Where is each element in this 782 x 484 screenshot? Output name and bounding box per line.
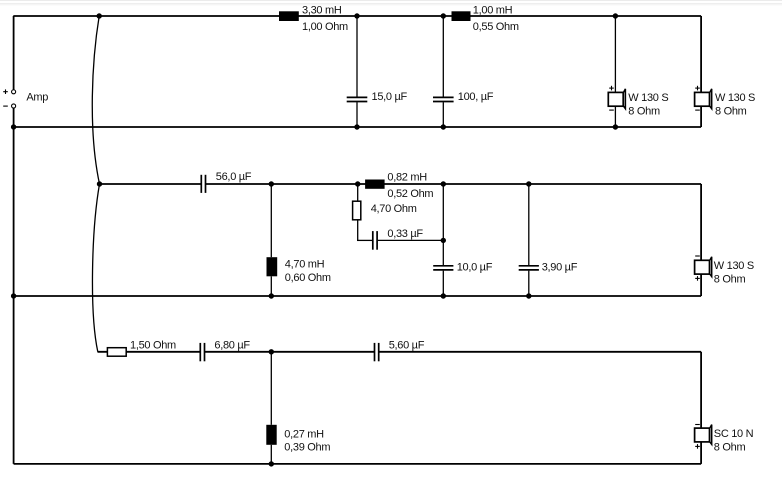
svg-text:0,60 Ohm: 0,60 Ohm — [285, 272, 331, 284]
junction node midrange rail / 4.70mH — [269, 181, 274, 186]
svg-text:0,33 µF: 0,33 µF — [387, 228, 423, 240]
svg-text:8 Ohm: 8 Ohm — [628, 106, 660, 118]
wire: midrange top rail left part — [100, 183, 202, 185]
wire: section 3 ground rail — [14, 463, 702, 465]
capacitor 6,80 uF (series, section 3) — [200, 343, 204, 361]
junction node ground rail 1 / left bus — [11, 124, 16, 129]
junction node top bus / woofer 1 — [613, 13, 618, 18]
svg-text:SC 10 N: SC 10 N — [714, 428, 754, 440]
wire: curved feed from midrange node to tweeter section — [92, 184, 99, 352]
junction node midrange rail / curve — [97, 181, 102, 186]
junction node ground rail 2 / 10uF — [441, 293, 446, 298]
junction node ground rail 2 / 4.70mH — [269, 293, 274, 298]
speaker W 130 S (midrange) — [695, 257, 712, 277]
svg-text:100, µF: 100, µF — [458, 91, 494, 103]
inductor 4,70 mH (shunt, section 2) — [267, 257, 278, 276]
wire: section 1 ground rail — [14, 126, 702, 128]
wire: section 1 right edge upper — [700, 16, 702, 92]
junction node ground rail 2 / left bus — [11, 293, 16, 298]
junction node ground rail 2 / 3.90uF — [526, 293, 531, 298]
minus sign amp — [3, 105, 8, 107]
svg-text:10,0 µF: 10,0 µF — [457, 261, 493, 273]
svg-text:3,30 mH: 3,30 mH — [302, 4, 342, 16]
wire: section 3 right edge lower — [700, 442, 702, 464]
junction node top bus / curve — [97, 13, 102, 18]
wire: 100uF cap upper stub — [442, 16, 444, 97]
svg-text:1,00 mH: 1,00 mH — [473, 4, 513, 16]
wire: tweeter top rail seg3 — [379, 351, 701, 353]
speaker W 130 S number 1 (woofer) — [608, 89, 625, 109]
junction node midrange rail / 3.90uF — [526, 181, 531, 186]
junction node ground rail 1 / 15uF — [354, 124, 359, 129]
junction node top bus / 15uF — [354, 13, 359, 18]
wire: RC branch horizontal right part — [378, 239, 444, 241]
speaker W 130 S number 2 (woofer) — [695, 89, 712, 109]
inductor 3,30 mH (series, section 1) — [279, 11, 299, 21]
top window edge band — [0, 0, 782, 6]
wire: 15uF cap upper stub — [356, 16, 358, 97]
wire: left bus upper (Amp + lead) — [13, 16, 15, 90]
svg-text:56,0 µF: 56,0 µF — [216, 171, 252, 183]
capacitor 100, uF (shunt, section 1) — [433, 97, 454, 101]
wire: 0.27mH shunt upper stub — [270, 352, 272, 425]
capacitor 56,0 uF (series, section 2) — [201, 175, 205, 193]
wire: top bus (section 1, + rail) — [13, 15, 701, 17]
capacitor 0,33 uF (series, RC branch) — [373, 231, 377, 250]
wire: 4.70mH shunt upper stub — [270, 184, 272, 257]
svg-text:0,55 Ohm: 0,55 Ohm — [473, 21, 519, 33]
resistor 1,50 Ohm (series, section 3) — [107, 348, 126, 357]
svg-text:4,70 Ohm: 4,70 Ohm — [371, 203, 417, 215]
svg-text:8 Ohm: 8 Ohm — [715, 106, 747, 118]
svg-text:8 Ohm: 8 Ohm — [714, 273, 746, 285]
minus sign woofer 1 — [609, 109, 614, 111]
svg-text:0,52 Ohm: 0,52 Ohm — [387, 188, 433, 200]
junction node ground rail 3 / 0.27mH — [269, 461, 274, 466]
wire: 4.70mH shunt lower stub — [270, 276, 272, 296]
wire: section 2 right edge lower — [700, 274, 702, 296]
minus sign midrange — [695, 255, 700, 257]
plus sign midrange — [695, 276, 700, 281]
capacitor 15,0 uF (shunt, section 1) — [347, 97, 368, 101]
speaker SC 10 N (tweeter) — [695, 425, 712, 445]
svg-text:8 Ohm: 8 Ohm — [714, 442, 746, 454]
svg-text:W 130 S: W 130 S — [714, 260, 754, 272]
wire: tweeter top rail seg2 — [205, 351, 374, 353]
wire: 10uF cap upper stub — [442, 184, 444, 265]
junction node ground rail 1 / woofer 1 — [613, 124, 618, 129]
svg-text:0,39 Ohm: 0,39 Ohm — [284, 442, 330, 454]
junction node RC branch / 10uF line — [441, 238, 446, 243]
wire: section 2 right edge upper — [700, 184, 702, 260]
wire: 0.27mH shunt lower stub — [270, 445, 272, 464]
capacitor 3,90 uF (shunt, section 2) — [519, 266, 539, 270]
plus sign woofer 1 — [609, 86, 614, 91]
svg-text:1,00 Ohm: 1,00 Ohm — [302, 21, 348, 33]
wire: 100uF cap lower stub — [442, 102, 444, 127]
svg-text:15,0 µF: 15,0 µF — [372, 91, 408, 103]
svg-text:3,90 µF: 3,90 µF — [542, 261, 578, 273]
wire: 15uF cap lower stub — [356, 102, 358, 127]
resistor 4,70 Ohm (RC branch) — [353, 201, 361, 220]
wire: tweeter top rail seg1 — [98, 351, 200, 353]
wire: woofer 1 upper stub — [614, 16, 616, 92]
plus sign tweeter — [695, 444, 700, 449]
svg-text:5,60 µF: 5,60 µF — [389, 339, 425, 351]
svg-text:1,50 Ohm: 1,50 Ohm — [130, 339, 176, 351]
wire: curved feed from top bus to midrange section — [92, 16, 99, 184]
capacitor 10,0 uF (shunt, section 2) — [433, 266, 453, 270]
wire: section 1 right edge lower — [700, 106, 702, 127]
junction node tweeter rail / 0.27mH — [269, 349, 274, 354]
amp terminal - (circle) — [12, 104, 16, 108]
minus sign woofer 2 — [695, 109, 700, 111]
junction node midrange rail / 10uF — [441, 181, 446, 186]
wire: section 3 right edge upper — [700, 352, 702, 428]
junction node midrange rail / RC branch — [355, 181, 360, 186]
inductor 0,82 mH (series, section 2) — [365, 180, 385, 189]
svg-text:W 130 S: W 130 S — [715, 92, 755, 104]
junction node ground rail 1 / 100uF — [441, 124, 446, 129]
inductor 0,27 mH (shunt, section 3) — [266, 425, 276, 445]
wire: RC branch stub resistor to corner — [357, 220, 359, 241]
svg-text:4,70 mH: 4,70 mH — [285, 259, 325, 271]
svg-text:W 130 S: W 130 S — [628, 92, 668, 104]
svg-text:0,27 mH: 0,27 mH — [284, 428, 324, 440]
minus sign tweeter — [695, 424, 700, 426]
wire: RC branch horizontal left part — [357, 239, 372, 241]
svg-text:Amp: Amp — [26, 91, 48, 103]
wire: section 2 ground rail — [14, 295, 702, 297]
plus sign amp — [3, 89, 8, 94]
wire: 3.90uF cap lower stub — [528, 271, 530, 296]
plus sign woofer 2 — [695, 86, 700, 91]
svg-text:0,82 mH: 0,82 mH — [387, 171, 427, 183]
wire: RC branch upper stub to resistor — [357, 184, 359, 201]
wire: left bus lower (Amp - lead / ground bus) — [13, 108, 15, 464]
wire: midrange top rail right part — [206, 183, 701, 185]
inductor 1,00 mH (series, section 1) — [452, 11, 471, 21]
junction node top bus / 100uF — [441, 13, 446, 18]
capacitor 5,60 uF (series, section 3) — [375, 343, 379, 361]
wire: woofer 1 lower stub — [614, 106, 616, 127]
wire: 10uF cap lower stub — [442, 271, 444, 296]
wire: 3.90uF cap upper stub — [528, 184, 530, 265]
amp terminal + (circle) — [12, 90, 16, 94]
svg-text:6,80 µF: 6,80 µF — [214, 339, 250, 351]
